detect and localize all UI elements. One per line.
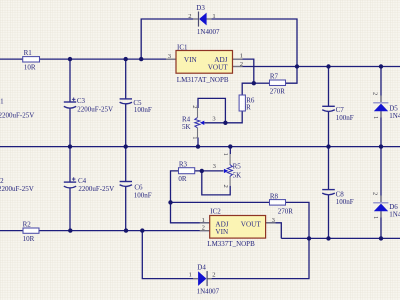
svg-text:2: 2 [212,272,215,279]
wire R4 wiper [204,122,225,124]
capacitor C7 [322,106,354,122]
wire C5 column [125,59,127,147]
wire R3 left to IC2 pin1 [171,171,210,223]
wire R4 bottom [197,138,199,147]
node junction dots output rail [295,64,383,68]
diode D3 [188,4,220,36]
svg-text:R3: R3 [179,160,188,168]
svg-text:R4: R4 [182,115,191,123]
op-amp regulator IC1 LM317 [166,43,243,84]
wire bottom input rail [0,230,210,232]
wire C7 column [328,67,330,147]
resistor R2 [23,221,39,243]
resistor R8 [270,192,294,215]
wire C6 column [125,147,127,231]
resistor R6 [239,95,255,112]
svg-text:R5: R5 [233,162,242,170]
potentiometer R4 [182,105,216,139]
wire R5 top [229,147,231,154]
svg-text:C6: C6 [134,183,143,191]
svg-text:2: 2 [191,105,198,108]
svg-text:270R: 270R [278,208,294,216]
svg-text:VIN: VIN [184,56,198,64]
node junction ADJ [252,81,256,85]
svg-text:R7: R7 [270,73,279,81]
svg-text:LM317AT_NOPB: LM317AT_NOPB [177,76,229,84]
svg-text:VOUT: VOUT [241,220,262,228]
capacitor C3 [64,97,113,113]
svg-text:2: 2 [240,61,243,68]
wire IC2 pin3 [266,223,282,239]
svg-text:1: 1 [372,216,379,219]
svg-text:2: 2 [372,92,379,95]
wire mid rail [0,146,400,148]
svg-text:VIN: VIN [215,228,229,236]
svg-text:100nF: 100nF [336,198,354,206]
wire D5 column [380,67,382,147]
wire R7 left [254,82,270,84]
resistor R3 [178,160,194,183]
svg-text:100nF: 100nF [134,191,152,199]
capacitor C1 [0,98,34,120]
potentiometer R5 [213,153,242,188]
svg-text:R2: R2 [23,221,32,229]
svg-text:C7: C7 [336,106,345,114]
wire R5 loop [202,171,230,195]
svg-text:D5: D5 [389,104,398,112]
wire R4 loop [198,98,225,122]
svg-text:R8: R8 [270,192,279,200]
svg-text:2200uF-25V: 2200uF-25V [0,111,34,119]
svg-text:IC1: IC1 [177,43,188,51]
wire R5 wiper [195,170,224,172]
svg-text:2200uF-25V: 2200uF-25V [78,185,114,193]
svg-text:R6: R6 [246,96,255,104]
svg-text:VOUT: VOUT [208,63,229,71]
svg-text:270R: 270R [270,88,286,96]
svg-text:2200uF-25V: 2200uF-25V [77,106,113,114]
svg-text:100nF: 100nF [336,114,354,122]
svg-text:IC2: IC2 [210,207,221,215]
wire C8 column [328,147,330,239]
svg-text:2: 2 [188,13,191,20]
wire D3 branch left [141,19,198,59]
svg-text:1: 1 [191,136,198,139]
svg-text:2200uF-25V: 2200uF-25V [0,185,34,193]
svg-text:10R: 10R [24,63,36,71]
node junction dots bottom output rail [307,236,383,240]
wire top input rail [0,58,176,60]
capacitor C5 [120,99,152,114]
svg-text:1N4007: 1N4007 [197,28,220,36]
node junction dots bottom input rail [68,228,144,232]
svg-text:5K: 5K [233,171,242,179]
svg-text:10R: 10R [23,235,35,243]
svg-text:0R: 0R [178,175,187,183]
svg-text:1: 1 [189,272,192,279]
svg-text:D3: D3 [196,4,205,12]
wire ADJ drop IC1 [233,59,254,83]
svg-text:C1: C1 [0,98,4,106]
capacitor C6 [120,182,152,200]
capacitor C4 [64,177,114,193]
wire bottom output rail [281,237,400,239]
svg-text:2: 2 [222,185,229,188]
svg-text:C2: C2 [0,177,4,185]
diode D5 [372,92,400,120]
svg-text:1: 1 [222,153,229,156]
node junction R4 wiper [223,121,227,125]
resistor R1 [23,49,40,71]
svg-text:LM337T_NOPB: LM337T_NOPB [207,240,255,248]
wire D3 branch right [207,19,297,67]
node junction R5 wiper [200,169,204,173]
diode D6 [372,192,400,219]
wire D4 branch left [142,231,198,279]
svg-text:1: 1 [202,217,205,224]
node junction R8 tap [168,200,172,204]
svg-text:1: 1 [240,52,243,59]
svg-text:C8: C8 [336,190,345,198]
wire R7 right up [286,67,298,84]
svg-text:1N4007: 1N4007 [197,288,220,296]
node junction dots mid rail [68,144,383,148]
svg-text:1N4007: 1N4007 [389,210,400,218]
wire R8 right down [286,202,310,238]
svg-text:5K: 5K [182,123,191,131]
wire R6 top link [242,83,254,95]
svg-text:100nF: 100nF [134,106,152,114]
resistor R7 [270,73,286,96]
wire C3 column [69,59,71,147]
wire D6 column [380,147,382,239]
svg-text:C3: C3 [77,97,86,105]
node junction dots top rail [68,57,144,61]
svg-text:1N4007: 1N4007 [389,112,400,120]
op-amp regulator IC2 LM337 [200,207,276,247]
wire D4 branch right [207,238,309,278]
svg-text:R1: R1 [24,49,33,57]
diode D4 [189,263,220,295]
wire top output rail [233,66,400,68]
wire C4 column [69,147,71,231]
svg-text:1: 1 [212,13,215,20]
capacitor C8 [322,190,354,207]
wire R8 left [171,201,270,203]
svg-text:2: 2 [202,225,205,232]
svg-text:1: 1 [372,116,379,119]
svg-text:D4: D4 [197,263,206,271]
svg-text:2: 2 [372,192,379,195]
capacitor C2 [0,177,34,193]
wire R6 bottom link [225,111,242,123]
